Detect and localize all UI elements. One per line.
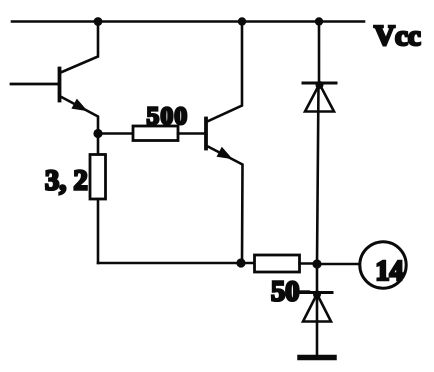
wire output node to pin circle [317, 263, 360, 266]
wire Q1 base lead [11, 83, 60, 86]
diode D2 triangle (pointing up) [303, 294, 331, 322]
resistor 50 (horizontal box) [255, 255, 300, 272]
ground symbol [300, 355, 334, 361]
diode D2 cathode bar [301, 291, 332, 294]
wire bottom horizontal to resistor 50 [98, 262, 255, 265]
diode D1 apex junction blob [316, 81, 324, 89]
node A junction (Q1 emitter / R 3.2 / wire to 500) [93, 129, 102, 138]
pin 14 circle [360, 242, 406, 288]
node junction bottom (Q2 emitter) [236, 258, 245, 267]
resistor 500 (horizontal box) [133, 126, 178, 141]
diode D1 triangle (pointing up) [305, 84, 334, 112]
svg-text:50: 50 [271, 277, 300, 308]
label tick from 50 to diode D2 [299, 290, 309, 292]
wire resistor 50 to output node [300, 262, 318, 265]
svg-text:500: 500 [147, 101, 189, 130]
svg-text:3, 2: 3, 2 [45, 166, 88, 197]
diode D2 apex junction blob [313, 291, 321, 299]
wire Vcc top rail [12, 20, 364, 23]
wire diode D1 anode down to output node [317, 84, 319, 264]
svg-text:Vcc: Vcc [374, 20, 421, 52]
transistor Q2 base bar [204, 119, 208, 149]
wire node A down to resistor 3.2 [97, 134, 100, 155]
wire Q2 emitter [206, 146, 243, 264]
resistor 3.2 (vertical box) [90, 155, 106, 200]
wire node A to resistor 500 [98, 132, 133, 135]
wire diode D2 anode to ground [316, 294, 319, 355]
transistor Q1 base bar [58, 69, 62, 101]
svg-text:14: 14 [376, 256, 404, 287]
wire Q1 collector to rail [60, 22, 99, 74]
arrow Q1 emitter (NPN) [72, 100, 86, 111]
wire rail to diode D1 cathode [318, 22, 321, 84]
node junction on rail at diode D1 [315, 17, 323, 25]
arrow Q2 emitter (NPN) [217, 148, 231, 159]
diode D1 cathode bar [303, 82, 336, 85]
node junction on rail at Q1 collector [94, 17, 103, 26]
node junction output (pin 14 / D2) [312, 259, 321, 268]
wire resistor 3.2 to bottom wire [97, 199, 100, 263]
wire Q1 emitter [60, 96, 99, 134]
wire output node to diode D2 cathode [316, 264, 319, 293]
wire resistor 500 to Q2 base [178, 132, 206, 135]
node junction on rail at Q2 collector [238, 17, 246, 25]
wire Q2 collector to rail [206, 22, 242, 123]
